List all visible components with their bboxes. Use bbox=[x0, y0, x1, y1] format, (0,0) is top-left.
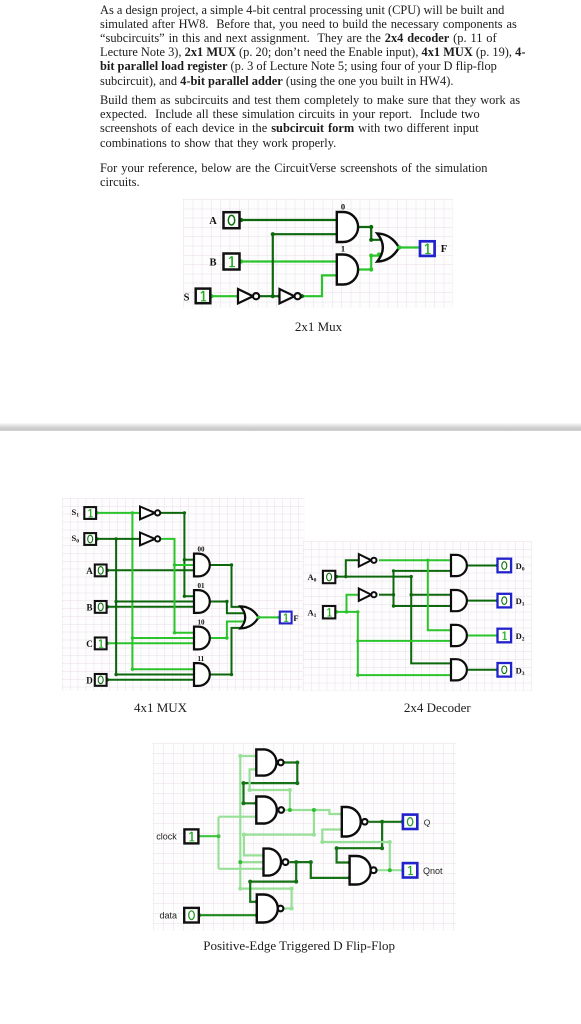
svg-text:D2: D2 bbox=[516, 631, 525, 643]
svg-text:A1: A1 bbox=[308, 607, 317, 619]
svg-text:Qnot: Qnot bbox=[423, 866, 443, 876]
svg-text:B: B bbox=[86, 602, 92, 612]
svg-text:F: F bbox=[441, 244, 447, 255]
svg-text:B: B bbox=[209, 258, 216, 269]
svg-text:D1: D1 bbox=[516, 596, 525, 608]
svg-text:S: S bbox=[184, 292, 190, 303]
svg-text:data: data bbox=[160, 911, 178, 921]
svg-text:C: C bbox=[86, 639, 93, 649]
svg-text:10: 10 bbox=[198, 619, 206, 627]
svg-text:D3: D3 bbox=[516, 665, 525, 677]
svg-text:S1: S1 bbox=[72, 507, 80, 519]
svg-text:A: A bbox=[209, 216, 217, 227]
svg-text:D: D bbox=[86, 675, 93, 685]
svg-text:0: 0 bbox=[341, 202, 345, 212]
svg-text:F: F bbox=[293, 613, 298, 623]
svg-text:D0: D0 bbox=[516, 561, 525, 573]
svg-text:S0: S0 bbox=[72, 533, 80, 545]
svg-text:Q: Q bbox=[424, 817, 431, 827]
svg-text:A: A bbox=[86, 566, 93, 576]
svg-text:00: 00 bbox=[198, 546, 206, 554]
svg-text:1: 1 bbox=[341, 243, 345, 253]
svg-text:clock: clock bbox=[156, 832, 177, 842]
svg-text:01: 01 bbox=[198, 582, 206, 590]
svg-text:11: 11 bbox=[198, 655, 205, 663]
svg-text:A0: A0 bbox=[308, 572, 317, 584]
